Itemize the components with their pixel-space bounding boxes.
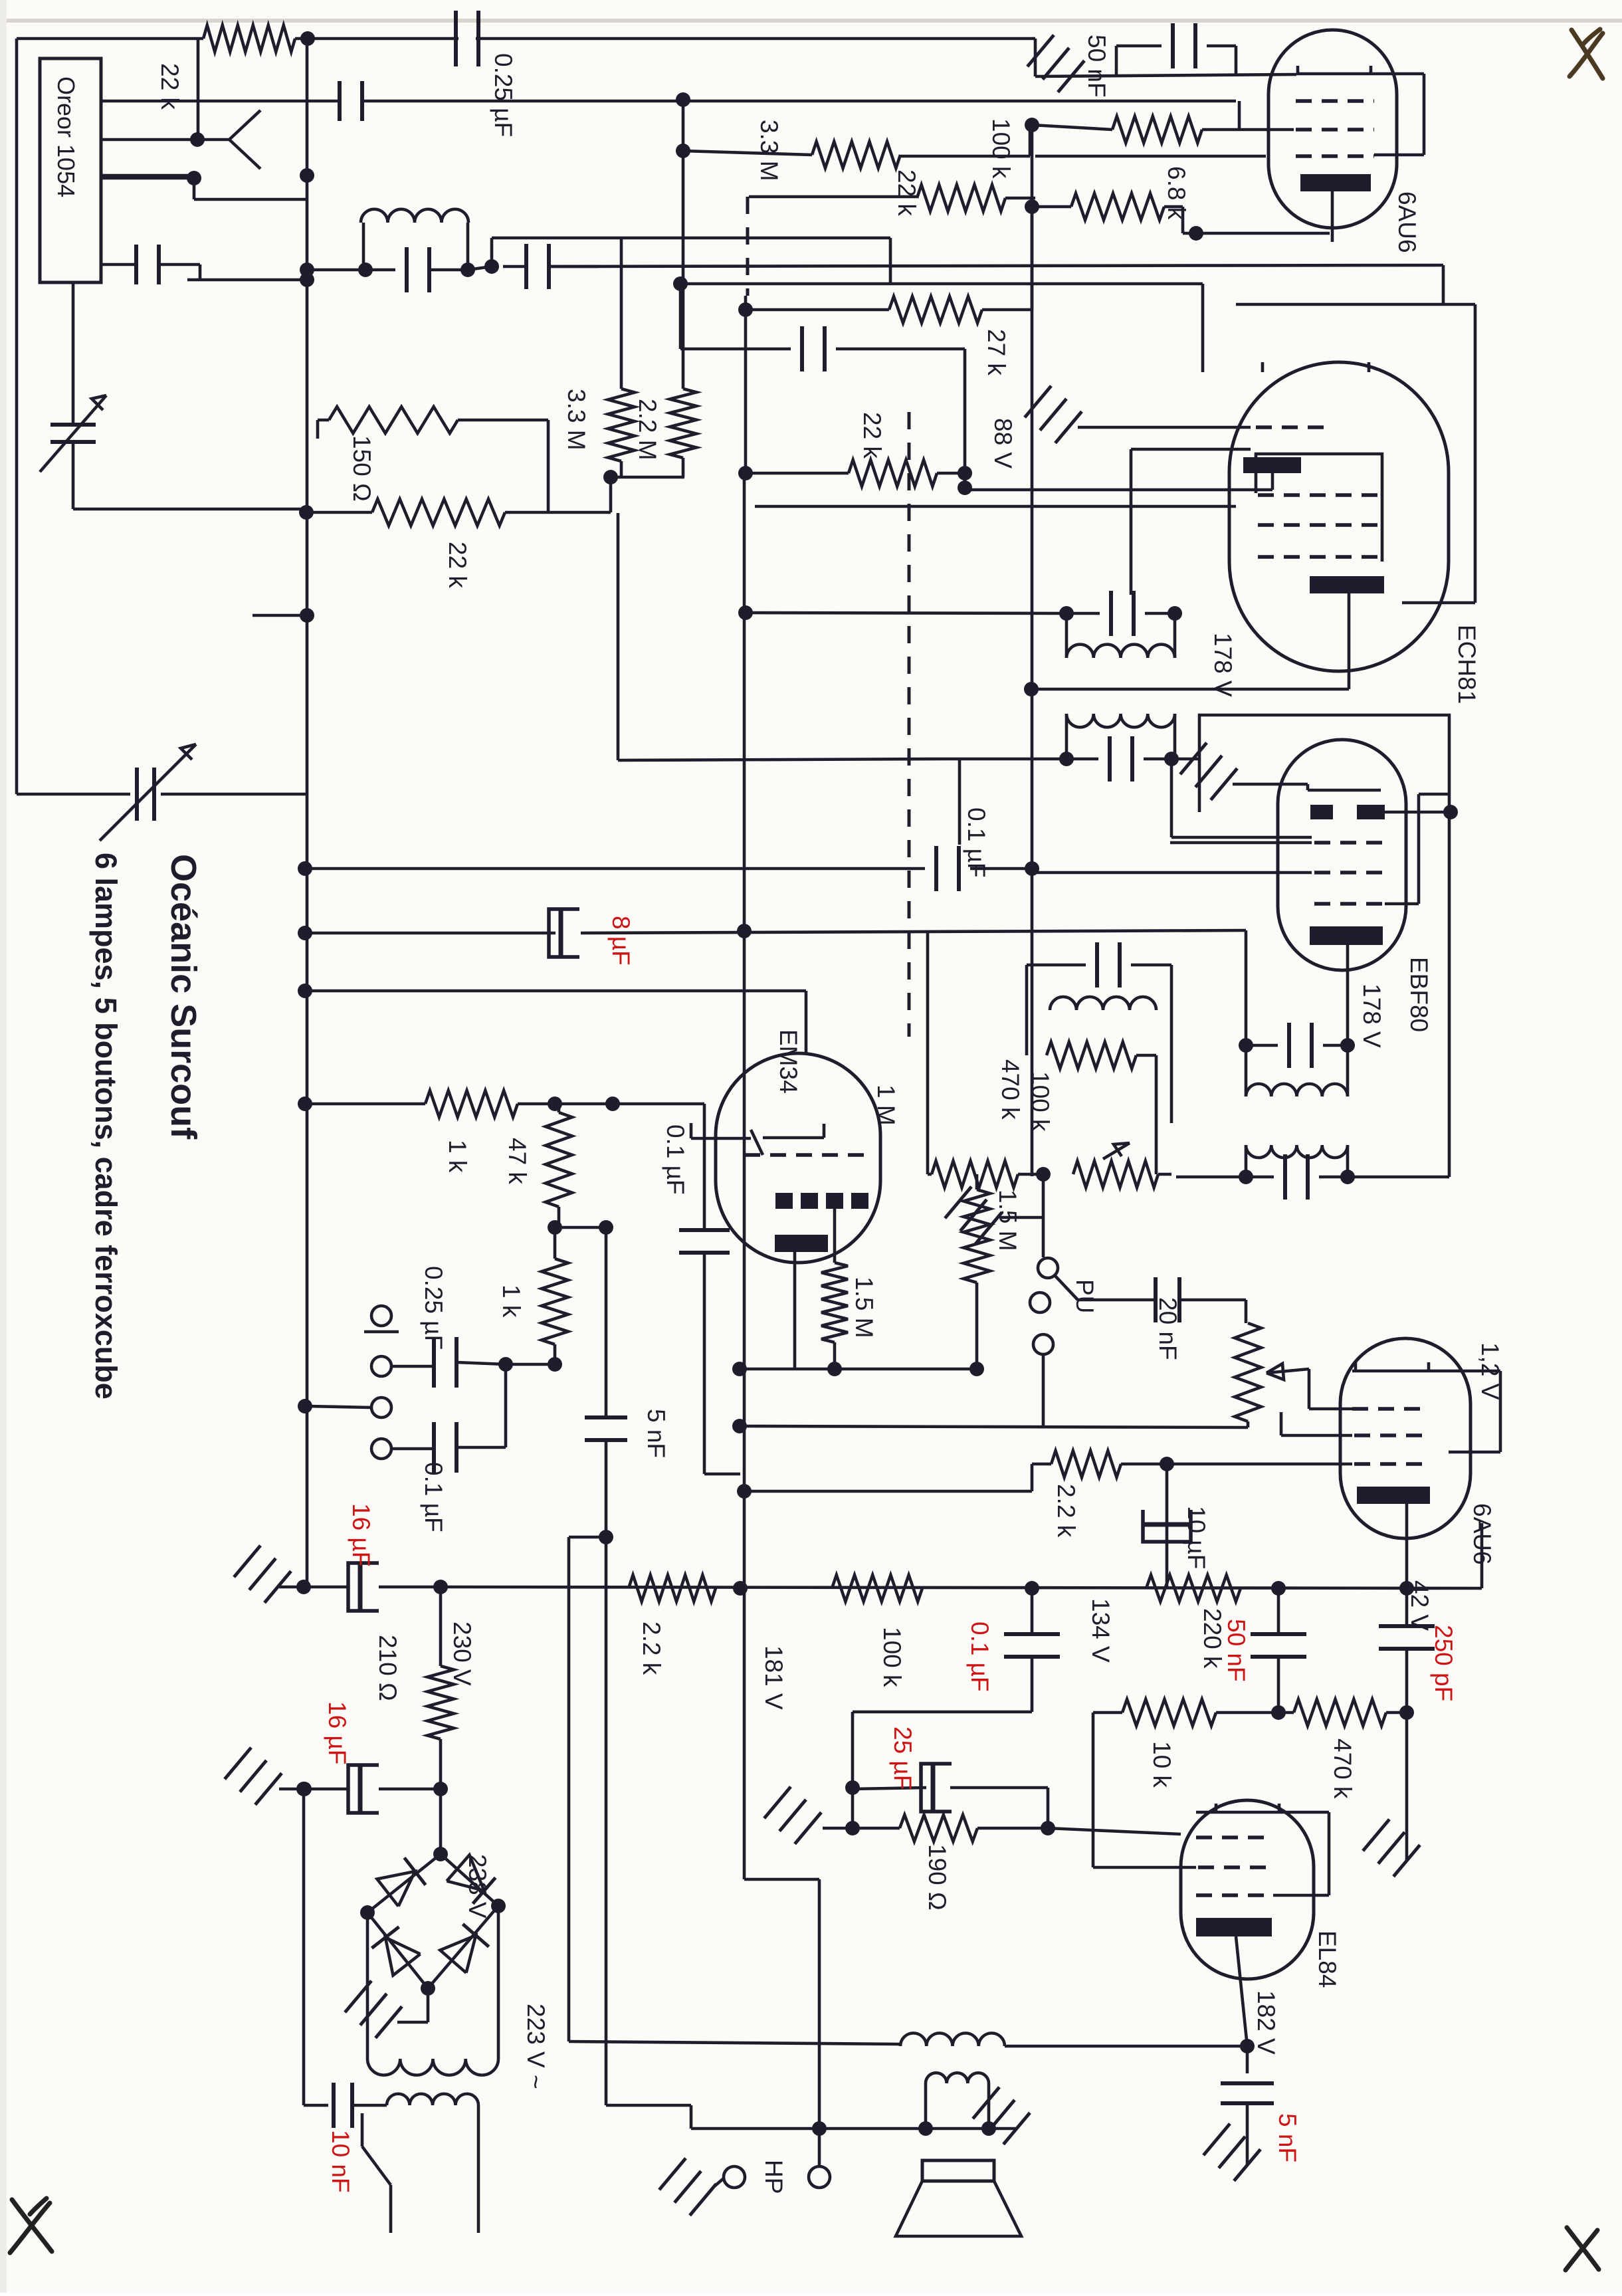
svg-text:EL84: EL84 [1314, 1931, 1341, 1988]
wire y235 under tube [1035, 155, 1266, 158]
main bus V2 [306, 39, 309, 1587]
ground G5 16uF row1 [264, 1571, 291, 1602]
capacitor C 5nF-2 [1246, 2046, 1249, 2073]
tube V4 EM34 envelope [716, 1053, 880, 1263]
ground G12 5nF [1234, 2149, 1261, 2180]
node y427 junction [673, 276, 688, 291]
wire y771 right [548, 511, 611, 514]
wire y3203 bottom [691, 2127, 1017, 2131]
tube V5 cathode [1357, 1487, 1430, 1504]
resistor R8 150ohm [318, 419, 329, 422]
wire cathode line [1183, 232, 1330, 235]
line y2390 main [441, 1587, 1482, 1588]
ground G3 in box [1233, 783, 1308, 786]
handwritten X top right [1570, 29, 1603, 78]
wire DL1 solid [744, 296, 748, 310]
handwritten X bottom left [10, 2198, 52, 2253]
wire y2244 [737, 1484, 752, 1499]
svg-text:10 k: 10 k [1148, 1741, 1175, 1788]
svg-text:470 k: 470 k [1329, 1738, 1356, 1799]
capacitor C 0.1uF-3 [391, 1447, 434, 1451]
IF2 bottom cap [1239, 1170, 1253, 1184]
nodes y2053 [498, 1357, 513, 1372]
svg-text:1 k: 1 k [444, 1140, 471, 1173]
svg-text:50 nF: 50 nF [1083, 35, 1110, 98]
IF transformer T-IF1 top tuned circuit [1059, 606, 1074, 621]
wire riser x1060 with 0.1uF [613, 1102, 704, 1106]
svg-text:1 M: 1 M [872, 1085, 900, 1126]
ground G11 EL84 grid [795, 1812, 821, 1843]
resistor R5 22k second [917, 185, 1005, 211]
svg-text:1,2 V: 1,2 V [1476, 1342, 1504, 1400]
capacitor C 16uF-1 [358, 1563, 363, 1611]
node EBF80 cath cap [1340, 1038, 1355, 1053]
svg-text:3.3 M: 3.3 M [563, 389, 590, 451]
svg-text:0.1 µF: 0.1 µF [662, 1124, 689, 1195]
svg-text:2.2 k: 2.2 k [1053, 1484, 1080, 1538]
wire riser x856 to output transformer [567, 1537, 571, 2041]
tube V5 6AU6-2 envelope [1340, 1338, 1470, 1538]
node 3.3M-H left [676, 144, 690, 158]
tube V3 cathode [1310, 926, 1383, 945]
wire pot bottom return to V3 [732, 1419, 747, 1433]
mains switch [361, 2113, 364, 2146]
svg-text:ECH81: ECH81 [1453, 625, 1480, 704]
svg-text:100 k: 100 k [878, 1627, 906, 1687]
capacitor C 20nF [1078, 1299, 1154, 1302]
resistor R 100k-4 134V [832, 1575, 922, 1602]
node L2 left [358, 262, 373, 277]
svg-text:6.8 k: 6.8 k [1163, 166, 1190, 220]
svg-text:1 k: 1 k [498, 1285, 525, 1318]
node 47k left [298, 1096, 312, 1111]
wire box bottom stub [72, 282, 75, 410]
svg-text:22 k: 22 k [444, 542, 471, 588]
transformer secondary verticals [366, 1913, 369, 2059]
tube V6 grid rows [1196, 1835, 1270, 1839]
wire x912 down to mains [605, 1537, 608, 2105]
svg-text:5 nF: 5 nF [1274, 2113, 1301, 2162]
wire y427 ECH81 grid [680, 282, 1203, 286]
svg-text:EM34: EM34 [775, 1029, 802, 1094]
svg-text:230 V: 230 V [449, 1621, 476, 1686]
bridge diode D4 [440, 1935, 476, 1972]
tube V6 anode line [1196, 1811, 1329, 1814]
transformer primary coil [387, 2094, 478, 2105]
wire x930 riser [617, 513, 620, 760]
coil L2 antenna secondary [361, 209, 468, 223]
tube V4 squares [775, 1193, 793, 1209]
node 2.2k right [1160, 1457, 1174, 1471]
svg-text:178 V: 178 V [1358, 984, 1385, 1048]
shield box EBF80 [1199, 715, 1449, 1177]
node 1k top [548, 1096, 562, 1111]
svg-text:223 V ~: 223 V ~ [522, 2004, 550, 2089]
node 3.3M bottom [603, 470, 618, 484]
wire tap y398 cap [101, 263, 136, 266]
tube V1 6AU6 envelope [1268, 30, 1397, 228]
resistor R4 3.3M horizontal [683, 151, 812, 155]
svg-text:6AU6: 6AU6 [1469, 1503, 1496, 1565]
svg-text:10 µF: 10 µF [1183, 1506, 1210, 1569]
jack circles [371, 1306, 391, 1326]
nodes y1847 [548, 1220, 562, 1235]
svg-text:10 nF: 10 nF [327, 2130, 354, 2193]
tube V2 hexode box [1256, 454, 1382, 562]
resistor R14 100k pot [1036, 1167, 1051, 1182]
tube V2 triode grid dashes [1256, 425, 1329, 429]
node y401 [484, 259, 499, 274]
tube V3 EBF80 envelope [1278, 740, 1406, 970]
tone pot R 1M vertical with arrow [1245, 1300, 1248, 1323]
node cathode 6AU6 [1189, 226, 1203, 241]
node bus bottom [296, 1580, 311, 1594]
svg-text:181 V: 181 V [760, 1645, 787, 1710]
frame antenna outer loop left [15, 39, 19, 794]
wire detector out [1176, 1176, 1246, 1179]
resistor R-47k [307, 1102, 425, 1106]
wire y400 oscillator line [549, 265, 1443, 266]
node 5nF bottom [599, 1530, 613, 1544]
wire y2060 to V3 [732, 1362, 747, 1376]
svg-text:210 Ω: 210 Ω [374, 1635, 401, 1701]
resistor R3 6.8k [1032, 205, 1071, 209]
wire y1398 left from cath node [1245, 930, 1248, 1045]
node bus y264 [300, 168, 314, 183]
svg-text:134 V: 134 V [1087, 1598, 1114, 1663]
PU switch [1042, 1174, 1045, 1257]
wire V3 top segment [682, 100, 685, 389]
wire AVC vertical [1031, 125, 1034, 1176]
wire y458 loop [1236, 303, 1475, 306]
wire y3072 B+ to OT [569, 2041, 900, 2044]
wire cathode RC [1166, 1464, 1169, 1588]
tube V2 ECH81 envelope [1229, 362, 1449, 671]
svg-text:150 Ω: 150 Ω [348, 435, 375, 502]
ground G9 HP [690, 2184, 716, 2215]
ground G6 16uF-2 row [255, 1773, 282, 1804]
svg-text:250 pF: 250 pF [1430, 1625, 1457, 1701]
bridge diode D2 [447, 1855, 484, 1891]
svg-text:190 Ω: 190 Ω [924, 1844, 951, 1911]
wire EL84 grid feed [1048, 1828, 1181, 1834]
resistor R 2.2k B+ dropper [629, 1575, 716, 1602]
capacitor C 10nF [302, 1789, 306, 2105]
node 50nF bottom [1271, 1705, 1286, 1720]
node cathode-avc [1024, 682, 1039, 696]
wire IF1 to EBF80 grid [1170, 759, 1173, 837]
resistor R-1k-2 vertical [542, 1259, 568, 1344]
resistor R1 22k top [203, 25, 295, 52]
tube V1 cathode [1300, 174, 1371, 191]
resistor R 210ohm vertical [439, 1587, 443, 1666]
HP terminals [818, 2129, 821, 2165]
wire 250pF to ground [1405, 1713, 1409, 1861]
resistor R13 470k [1047, 1042, 1136, 1069]
resistor R2 100k [1032, 125, 1112, 130]
tube V4 target electrode [751, 1130, 763, 1155]
wire y1491 EM34 feed [298, 984, 312, 998]
svg-text:3.3 M: 3.3 M [756, 120, 783, 181]
tube V6 cathode [1196, 1918, 1272, 1936]
resistor R12 1M [932, 1161, 1018, 1188]
svg-text:EBF80: EBF80 [1405, 957, 1433, 1032]
svg-text:100 k: 100 k [987, 118, 1015, 179]
svg-text:PU: PU [1071, 1279, 1098, 1313]
svg-text:1.5 M: 1.5 M [994, 1190, 1021, 1251]
svg-text:2.2 M: 2.2 M [634, 399, 661, 461]
pot wiper arrow [1103, 1143, 1130, 1159]
svg-text:6 lampes, 5 boutons, cadre fer: 6 lampes, 5 boutons, cadre ferroxcube [89, 853, 123, 1400]
tube V4 stems [793, 1252, 797, 1369]
resistor R11 2.2M vertical [670, 389, 696, 458]
svg-text:0.25 µF: 0.25 µF [420, 1266, 447, 1350]
variable capacitor CV2 bottom left [17, 793, 130, 796]
node bus y421 [300, 272, 314, 287]
svg-text:88 V: 88 V [989, 418, 1017, 469]
wire cathode corner [1480, 1523, 1484, 1588]
svg-text:0.1 µF: 0.1 µF [966, 1621, 993, 1692]
svg-text:16 µF: 16 µF [324, 1701, 351, 1764]
wire x1702 grid link [1130, 449, 1133, 595]
node AVC top [1025, 118, 1039, 132]
node bus y926 [300, 608, 314, 623]
PU jack circles [1030, 1293, 1050, 1312]
wire y406 chain [307, 268, 395, 272]
resistor R9 22k [299, 505, 314, 520]
svg-text:20 nF: 20 nF [1154, 1297, 1181, 1360]
svg-text:HP: HP [760, 2160, 787, 2194]
wire tap y210 [101, 138, 197, 142]
tube V4 cathode bar [775, 1235, 828, 1252]
svg-text:22 k: 22 k [156, 63, 183, 110]
capacitor C 0.1uF red [1004, 1632, 1060, 1636]
resistor R10 3.3M vertical [608, 389, 635, 461]
wire link cap to IF line [958, 759, 962, 845]
node 182V [1240, 2039, 1255, 2053]
wire y525 with cap [680, 348, 791, 351]
node 25uF junction [845, 1780, 860, 1795]
node 16uF1 right [433, 1580, 448, 1594]
handwritten X bottom right [1566, 2228, 1599, 2270]
tube V2 hexode cathode [1310, 576, 1384, 593]
ferrite rod box Oreor 1054 [40, 58, 101, 282]
node y922 on 181V line [738, 605, 753, 620]
tube V5 grid rows [1352, 1407, 1429, 1411]
svg-text:22 k: 22 k [859, 412, 886, 459]
svg-text:27 k: 27 k [983, 329, 1010, 375]
wire tap y152 with C2 [101, 100, 340, 103]
tone wiper arrow [1267, 1369, 1309, 1373]
wire y2313 to B+ riser [569, 1536, 606, 1539]
node box right y1222 [1443, 805, 1458, 819]
svg-text:Océanic Surcouf: Océanic Surcouf [163, 854, 203, 1140]
wire tap y268 to bus [101, 177, 194, 180]
resistor R6 27k [746, 308, 889, 312]
node 27k left [738, 302, 753, 317]
wire V3 long 181V line [743, 473, 746, 1879]
capacitor C 25uF [853, 1788, 926, 1789]
svg-text:25 µF: 25 µF [889, 1726, 916, 1790]
wire y399 corner [1442, 265, 1445, 304]
capacitor C5nF vertical [605, 1227, 608, 1417]
capacitor C 0.25uF-2 [391, 1365, 434, 1368]
output transformer secondary [926, 2073, 989, 2083]
ground G10 [1393, 1845, 1420, 1876]
node top bus [300, 31, 315, 46]
tube V1 anode line [1296, 72, 1424, 76]
svg-text:47 k: 47 k [504, 1138, 531, 1184]
capacitor C 10uF [1143, 1522, 1191, 1527]
svg-text:6AU6: 6AU6 [1393, 191, 1421, 253]
ground G7 bridge [427, 1988, 430, 2022]
capacitor C4 padder2 [524, 244, 528, 289]
tube V3 diode plates [1310, 805, 1333, 819]
tube V6 EL84 envelope [1181, 1800, 1314, 1979]
svg-text:Oreor 1054: Oreor 1054 [52, 76, 80, 197]
svg-text:470 k: 470 k [997, 1059, 1024, 1120]
speaker [922, 2160, 994, 2181]
tube V2 hexode grid rows [1258, 493, 1380, 497]
transformer secondary coil [367, 2059, 498, 2075]
svg-text:182 V: 182 V [1253, 1990, 1280, 2055]
svg-text:1.5 M: 1.5 M [851, 1277, 878, 1338]
node osc anode [958, 480, 972, 495]
svg-text:220 k: 220 k [1199, 1608, 1226, 1669]
antenna arrow symbol [190, 132, 205, 147]
capacitor C5 50nF [1115, 46, 1118, 76]
tube V3 grid rows [1170, 841, 1312, 845]
tube V5 top ticks and anode [1352, 1370, 1500, 1373]
tube V2 top ticks [1261, 362, 1265, 372]
tube V1 grid rows [1296, 99, 1374, 103]
resistor R15 1.5M vertical1 [975, 1174, 979, 1190]
bridge diode D3 [385, 1938, 421, 1976]
svg-text:100 k: 100 k [1027, 1071, 1054, 1132]
wire V3 mid [679, 284, 682, 349]
resistor R 190ohm [853, 1827, 900, 1830]
dashed gang link DL2 [908, 412, 911, 1037]
svg-text:22 k: 22 k [893, 169, 920, 216]
detector coil LC3 [1027, 964, 1086, 967]
svg-text:0.1 µF: 0.1 µF [420, 1462, 447, 1532]
wire 3.3M/2.2M bottoms [611, 476, 684, 479]
node 42V [1399, 1581, 1414, 1596]
ground G2 triode grid [1078, 426, 1251, 429]
svg-text:0.1 µF: 0.1 µF [963, 807, 990, 878]
resistor R16 1.5M vertical2 [821, 1263, 848, 1342]
resistor R 10k [1122, 1699, 1216, 1726]
IF1 bottom tuned cap [1059, 752, 1074, 766]
svg-text:2.2 k: 2.2 k [638, 1621, 665, 1675]
bridge diode D1 [377, 1871, 415, 1907]
resistor R 220k [1146, 1575, 1241, 1602]
transformer primary right lead [477, 2105, 480, 2233]
capacitor C3 padder [405, 247, 409, 292]
bridge rectifier [367, 1854, 441, 1913]
wire x912 corner at mains line [606, 2104, 691, 2107]
node L2 right [460, 262, 475, 277]
wire y1397 8uF B+ line [298, 926, 312, 940]
capacitor C1 0.25uF top line [454, 11, 458, 66]
wire R1 left lead down [197, 39, 200, 140]
capacitor C-IF2a [1246, 1044, 1278, 1047]
wire y766 left to CV1 [73, 508, 307, 511]
node y150 [676, 92, 690, 107]
dashed gang link DL1 [746, 197, 750, 296]
node 6.8k left [1025, 199, 1039, 214]
capacitor C 0.1uF line y1307 [307, 867, 925, 871]
IF2 coils [1245, 1045, 1248, 1096]
IF1 second coil [1066, 714, 1175, 727]
svg-text:16 µF: 16 µF [348, 1503, 375, 1566]
tube V3 screen link [1417, 794, 1421, 904]
resistor R-1k-1 vertical [558, 1104, 561, 1112]
wire grid EM34 left [690, 1123, 693, 1138]
svg-text:178 V: 178 V [1209, 633, 1237, 697]
ground G4 PU [975, 1212, 1002, 1243]
capacitor C 250pF red [1405, 1588, 1409, 1626]
resistor R 2.2k-3 [1051, 1451, 1121, 1477]
wire jack3 to bus [298, 1399, 312, 1413]
variable capacitor CV1 [51, 423, 96, 427]
capacitor C 16uF-2 [358, 1765, 363, 1813]
tube V5 g2 stub [1280, 1412, 1283, 1435]
capacitor C 50nF-2 red [1277, 1588, 1280, 1634]
wire corner to 50nF cluster [1034, 39, 1037, 76]
resistor R7 22k third [738, 466, 753, 480]
tube V2 triode anode [1243, 457, 1301, 473]
resistor R 470k-2 [1294, 1699, 1386, 1726]
svg-text:5 nF: 5 nF [643, 1409, 670, 1458]
output transformer primary [900, 2033, 1005, 2046]
ground G8 speaker [1003, 2113, 1030, 2144]
svg-text:50 nF: 50 nF [1223, 1619, 1250, 1682]
svg-text:8 µF: 8 µF [607, 916, 635, 966]
ground G1 50nF cluster [1035, 74, 1296, 76]
wire y765 long [755, 505, 1236, 508]
wire y358 to ECH81 grid line [490, 238, 494, 266]
svg-text:0.25 µF: 0.25 µF [490, 53, 517, 137]
wire 238V [439, 1789, 443, 1854]
